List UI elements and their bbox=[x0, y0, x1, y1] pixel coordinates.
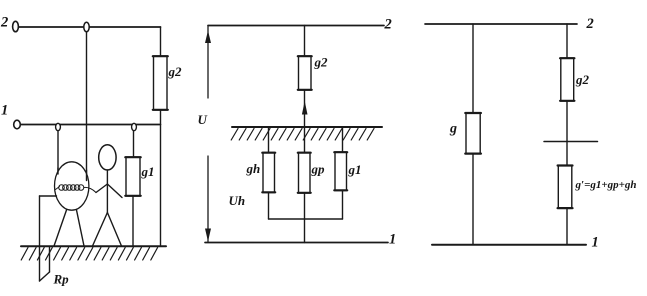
svg-text:g1: g1 bbox=[141, 164, 155, 179]
svg-text:g: g bbox=[449, 122, 457, 137]
svg-text:Rp: Rp bbox=[53, 272, 70, 287]
svg-text:Uh: Uh bbox=[229, 193, 246, 208]
svg-text:1: 1 bbox=[1, 103, 8, 119]
svg-text:2: 2 bbox=[384, 16, 392, 32]
svg-text:g1: g1 bbox=[348, 162, 362, 177]
svg-text:2: 2 bbox=[0, 15, 8, 31]
svg-text:g2: g2 bbox=[575, 72, 590, 87]
svg-text:U: U bbox=[198, 112, 208, 127]
svg-text:gp: gp bbox=[311, 162, 326, 177]
svg-text:1: 1 bbox=[592, 235, 599, 251]
svg-text:g2: g2 bbox=[168, 64, 183, 79]
svg-text:2: 2 bbox=[586, 16, 594, 32]
svg-text:g2: g2 bbox=[314, 55, 329, 70]
svg-text:g′=g1+gp+gh: g′=g1+gp+gh bbox=[575, 179, 637, 191]
svg-text:1: 1 bbox=[389, 232, 396, 248]
svg-text:gh: gh bbox=[246, 161, 261, 176]
